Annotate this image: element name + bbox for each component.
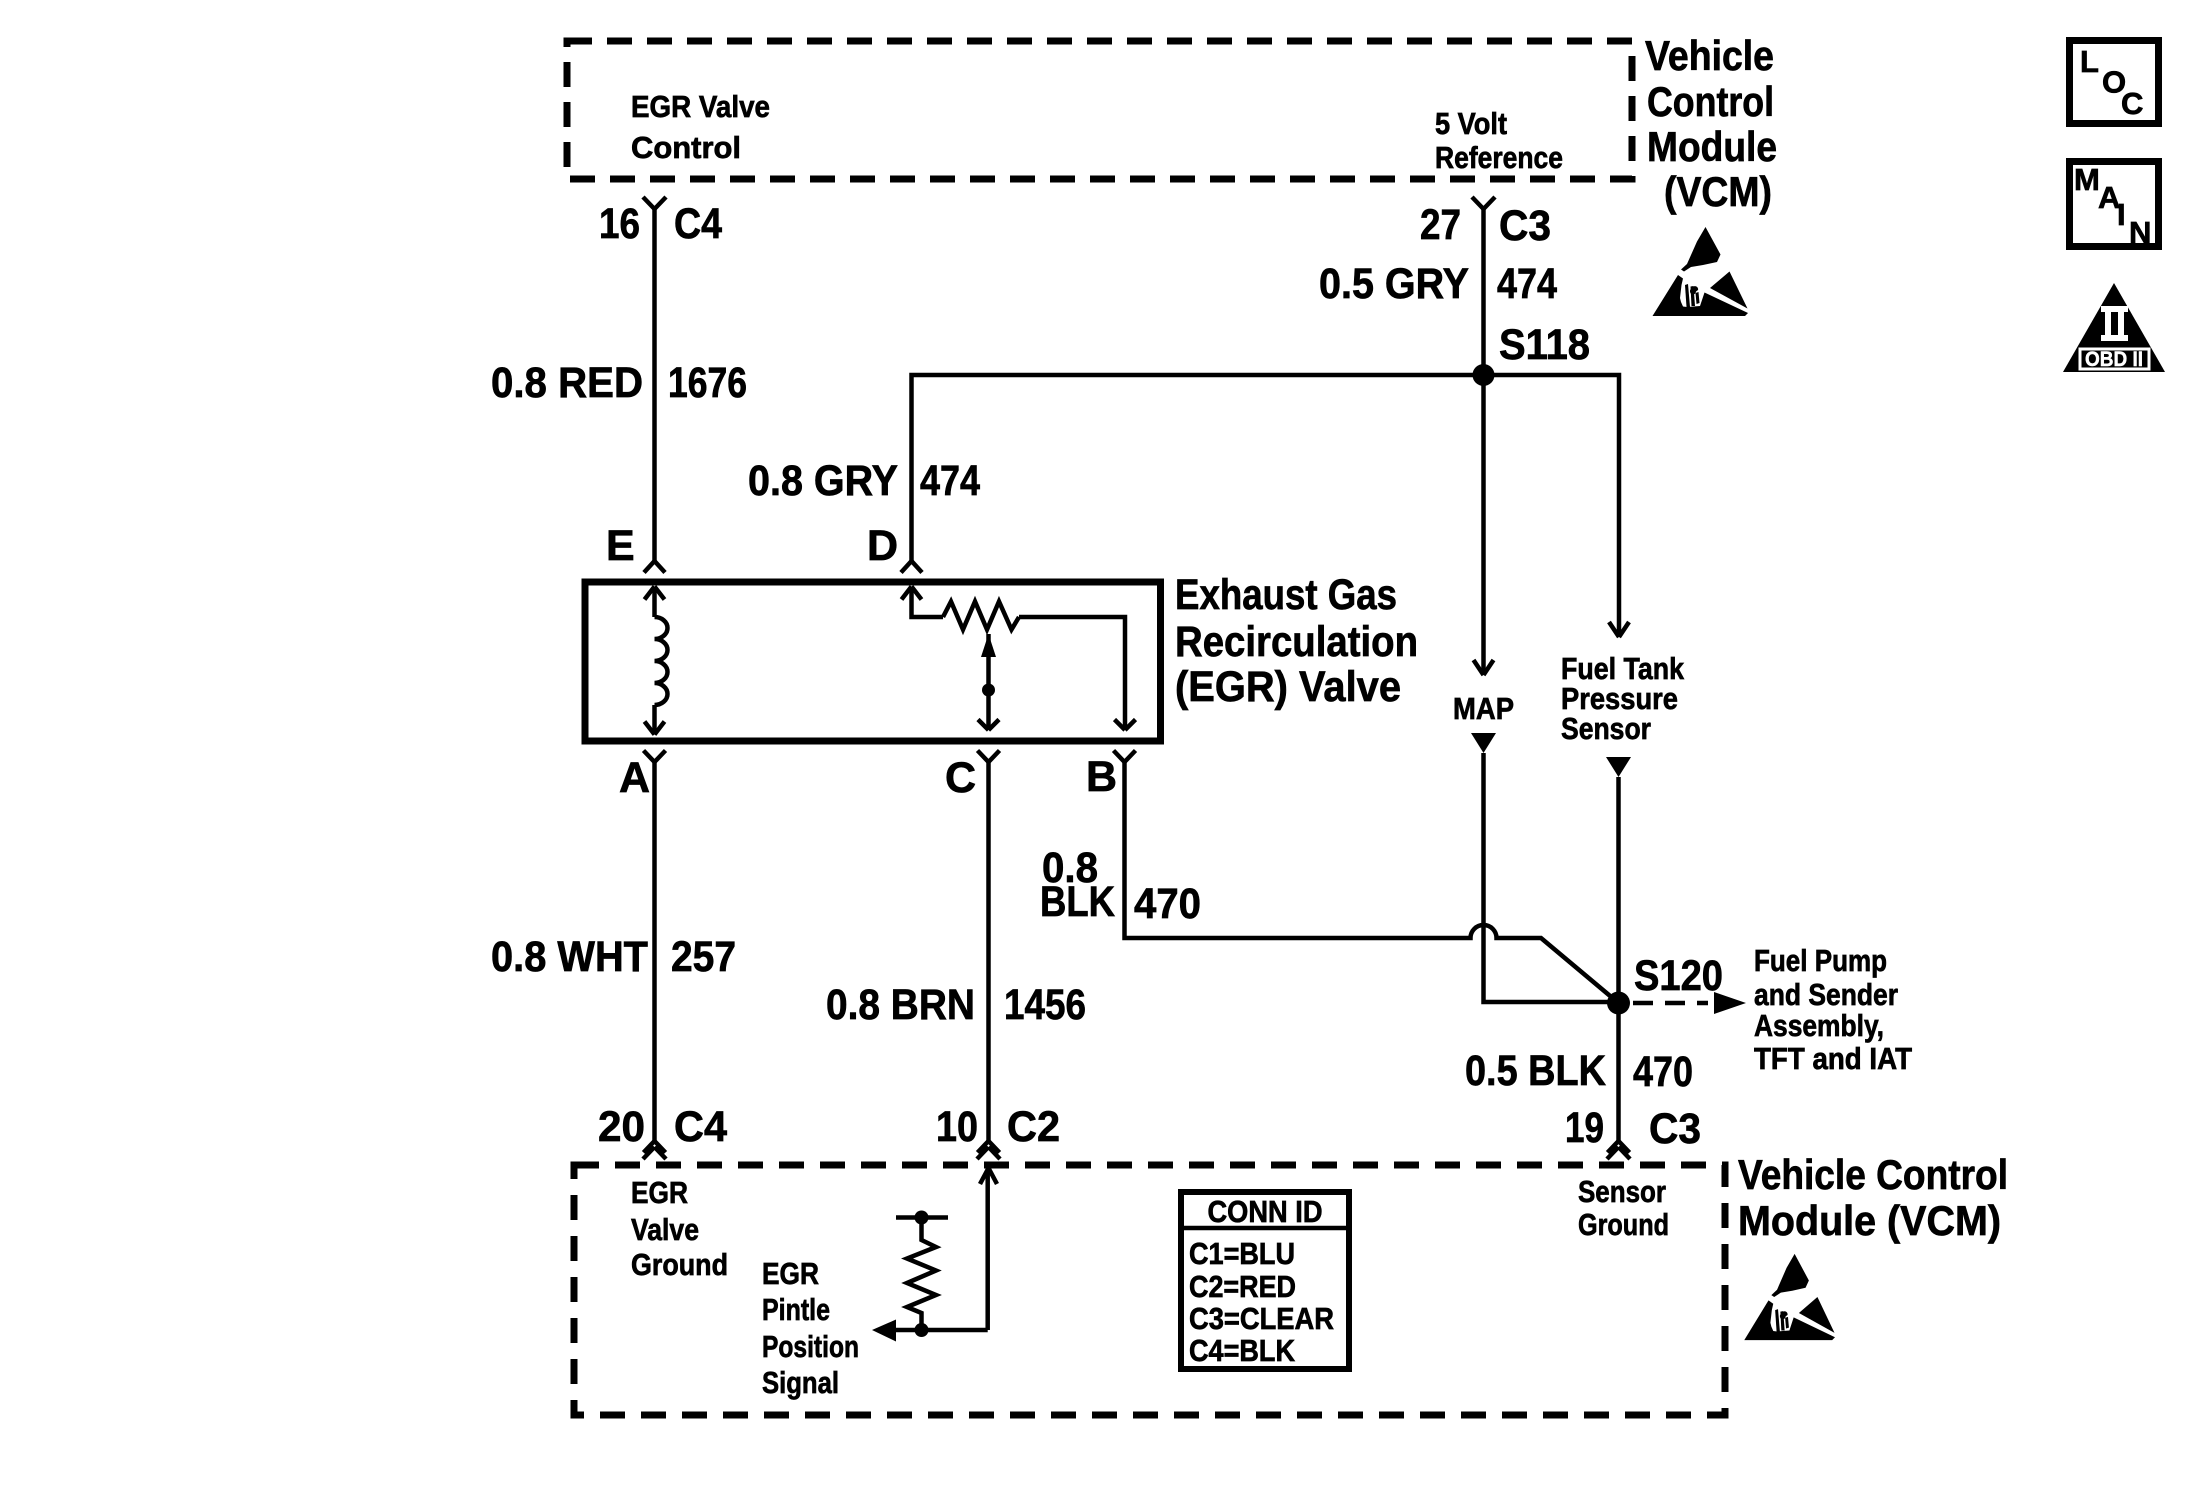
svg-text:Exhaust Gas: Exhaust Gas bbox=[1175, 571, 1397, 619]
connector pin 27 C3 (fork) bbox=[1472, 197, 1495, 209]
svg-text:C3=CLEAR: C3=CLEAR bbox=[1189, 1301, 1334, 1336]
LOC reference flag box bbox=[2070, 41, 2159, 124]
svg-text:B: B bbox=[1086, 753, 1117, 801]
svg-text:Valve: Valve bbox=[631, 1212, 699, 1247]
svg-text:Sensor: Sensor bbox=[1561, 711, 1651, 746]
svg-text:19: 19 bbox=[1565, 1104, 1604, 1152]
svg-text:C4: C4 bbox=[674, 1103, 727, 1151]
svg-text:S120: S120 bbox=[1634, 952, 1723, 1000]
svg-text:C3: C3 bbox=[1649, 1105, 1701, 1153]
open arrow to MAP bbox=[1474, 660, 1494, 675]
svg-text:16: 16 bbox=[599, 200, 640, 248]
svg-text:0.8 GRY: 0.8 GRY bbox=[748, 457, 898, 505]
svg-text:S118: S118 bbox=[1499, 321, 1590, 369]
svg-text:5 Volt: 5 Volt bbox=[1435, 106, 1507, 141]
svg-text:20: 20 bbox=[598, 1103, 645, 1151]
svg-text:Module: Module bbox=[1647, 123, 1777, 170]
svg-text:MAP: MAP bbox=[1453, 691, 1514, 726]
EGR pin B fork bbox=[1114, 751, 1136, 763]
EGR pin C fork bbox=[978, 751, 1000, 763]
arrow up into VCM from pin 10 (EGR pintle position signal) bbox=[980, 1168, 997, 1330]
svg-text:Control: Control bbox=[631, 130, 741, 165]
svg-text:0.8 WHT: 0.8 WHT bbox=[491, 933, 648, 981]
svg-text:1456: 1456 bbox=[1004, 981, 1086, 1029]
wire 0.8 BLK 470: EGR pin B to splice S120, hops over MAP wire bbox=[1125, 762, 1619, 1003]
OBD II flag symbol bbox=[2063, 283, 2165, 372]
svg-text:I: I bbox=[2117, 197, 2126, 232]
svg-text:474: 474 bbox=[920, 457, 980, 505]
svg-text:474: 474 bbox=[1497, 260, 1557, 308]
potentiometer wiper to pin C bbox=[978, 634, 999, 730]
svg-text:Recirculation: Recirculation bbox=[1175, 618, 1418, 666]
open arrow to Fuel Tank Pressure Sensor bbox=[1609, 622, 1629, 637]
svg-text:27: 27 bbox=[1420, 201, 1461, 249]
dashed branch wire to fuel pump and sender assembly bbox=[1633, 1001, 1708, 1006]
svg-text:C: C bbox=[945, 754, 976, 802]
splice S118 bbox=[1473, 364, 1495, 386]
svg-text:Assembly,: Assembly, bbox=[1754, 1008, 1884, 1043]
filled arrow pointing to EGR Pintle Position Signal label bbox=[872, 1320, 896, 1342]
svg-text:N: N bbox=[2129, 215, 2151, 250]
VCM top module dashed box bbox=[567, 41, 1632, 179]
svg-text:Ground: Ground bbox=[631, 1247, 728, 1282]
svg-text:0.5 GRY: 0.5 GRY bbox=[1319, 260, 1469, 308]
svg-text:D: D bbox=[867, 522, 898, 570]
svg-text:0.5 BLK: 0.5 BLK bbox=[1465, 1047, 1606, 1095]
svg-text:L: L bbox=[2080, 44, 2099, 79]
ESD sensitive device symbol (bottom VCM) bbox=[1744, 1254, 1835, 1340]
svg-text:Pintle: Pintle bbox=[762, 1292, 830, 1327]
svg-text:Control: Control bbox=[1647, 78, 1774, 125]
svg-text:Position: Position bbox=[762, 1329, 859, 1364]
resistor bottom junction dot bbox=[915, 1323, 929, 1337]
wire 0.5 GRY 474: VCM pin 27 to S118 to MAP bbox=[1481, 208, 1486, 675]
svg-text:CONN ID: CONN ID bbox=[1208, 1194, 1323, 1229]
svg-text:and Sender: and Sender bbox=[1754, 977, 1898, 1012]
svg-text:Ground: Ground bbox=[1578, 1207, 1669, 1242]
svg-text:OBD II: OBD II bbox=[2085, 348, 2143, 371]
svg-text:EGR: EGR bbox=[762, 1256, 819, 1291]
wire 0.8 GRY 474: S118 to EGR pin D, and branch to fuel tank pressure sensor bbox=[912, 375, 1620, 623]
resistor top junction dot bbox=[915, 1211, 929, 1225]
svg-text:Sensor: Sensor bbox=[1578, 1174, 1666, 1209]
svg-text:C2: C2 bbox=[1007, 1103, 1060, 1151]
splice S120 bbox=[1607, 992, 1630, 1015]
svg-text:C1=BLU: C1=BLU bbox=[1189, 1236, 1295, 1271]
wire 0.8 WHT 257: EGR pin A to VCM pin 20 bbox=[652, 762, 657, 1141]
wiper junction dot bbox=[982, 684, 995, 697]
EGR pin D connector chevron bbox=[901, 561, 922, 573]
VCM bottom module dashed box bbox=[574, 1165, 1725, 1415]
wire 0.8 BRN 1456: EGR pin C to VCM pin 10 bbox=[986, 762, 991, 1141]
svg-text:Fuel Pump: Fuel Pump bbox=[1754, 943, 1887, 978]
connector pin 20 C4 (fork and chevron) bbox=[643, 1141, 666, 1159]
svg-text:1676: 1676 bbox=[668, 359, 747, 407]
svg-text:TFT and IAT: TFT and IAT bbox=[1754, 1041, 1912, 1076]
svg-text:BLK: BLK bbox=[1040, 878, 1115, 926]
MAIN reference flag box bbox=[2070, 162, 2159, 251]
ESD sensitive device symbol (top VCM) bbox=[1653, 227, 1749, 316]
wire from MAP sensor to S120 bbox=[1471, 733, 1496, 753]
EGR pin A fork bbox=[644, 751, 666, 763]
connector pin 10 C2 (fork and chevron) bbox=[977, 1141, 1000, 1159]
svg-text:C3: C3 bbox=[1499, 202, 1551, 250]
svg-text:0.8 BRN: 0.8 BRN bbox=[826, 981, 975, 1029]
svg-text:EGR: EGR bbox=[631, 1175, 688, 1210]
svg-text:(EGR) Valve: (EGR) Valve bbox=[1175, 663, 1401, 711]
svg-text:257: 257 bbox=[671, 933, 736, 981]
wire 0.8 RED 1676: VCM pin 16 to EGR pin E bbox=[652, 208, 657, 561]
svg-text:0.8 RED: 0.8 RED bbox=[491, 359, 643, 407]
svg-text:A: A bbox=[619, 754, 650, 802]
svg-text:470: 470 bbox=[1633, 1048, 1693, 1096]
svg-text:C4=BLK: C4=BLK bbox=[1189, 1333, 1296, 1368]
svg-text:M: M bbox=[2074, 162, 2100, 197]
EGR valve component box bbox=[585, 582, 1161, 741]
svg-text:Vehicle: Vehicle bbox=[1645, 32, 1774, 79]
CONN ID table bbox=[1181, 1192, 1349, 1369]
svg-text:C4: C4 bbox=[674, 200, 722, 248]
svg-text:Signal: Signal bbox=[762, 1365, 839, 1400]
EGR pin E connector chevron bbox=[644, 561, 665, 573]
svg-text:Module (VCM): Module (VCM) bbox=[1738, 1197, 2001, 1244]
svg-text:(VCM): (VCM) bbox=[1664, 168, 1772, 215]
pintle signal pull-up resistor inside VCM bbox=[894, 1218, 988, 1331]
EGR solenoid coil between pins E and A bbox=[645, 587, 668, 735]
svg-text:10: 10 bbox=[936, 1103, 978, 1151]
svg-text:Reference: Reference bbox=[1435, 140, 1563, 175]
EGR pintle position potentiometer between pins D and B bbox=[902, 587, 1136, 731]
svg-text:C: C bbox=[2121, 86, 2143, 121]
svg-text:C2=RED: C2=RED bbox=[1189, 1269, 1296, 1304]
svg-text:EGR Valve: EGR Valve bbox=[631, 89, 770, 124]
svg-text:470: 470 bbox=[1134, 880, 1201, 928]
svg-text:E: E bbox=[606, 522, 635, 570]
connector pin 16 C4 (fork) bbox=[643, 197, 666, 209]
svg-text:Vehicle Control: Vehicle Control bbox=[1738, 1151, 2008, 1198]
connector pin 19 C3 (fork and chevron) bbox=[1607, 1141, 1630, 1159]
wire from Fuel Tank Pressure Sensor through S120 to pin 19 bbox=[1606, 757, 1631, 777]
